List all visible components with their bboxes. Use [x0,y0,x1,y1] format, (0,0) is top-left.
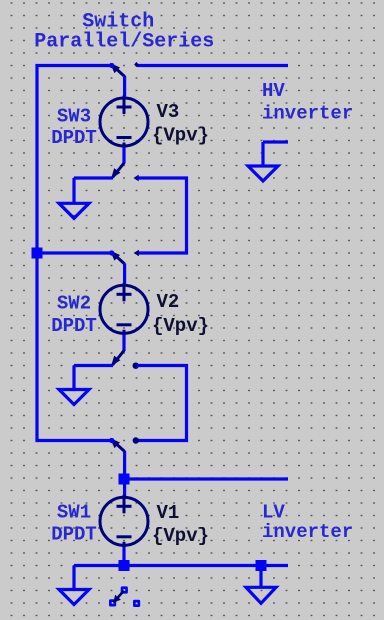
wire: series link V3 negative to SW2 right contact (U branch) [137,178,187,253]
node: junction left rail / SW2 wire [32,248,43,259]
svg-text:DPDT: DPDT [51,524,97,546]
svg-text:DPDT: DPDT [51,127,97,149]
svg-text:SW1: SW1 [57,502,91,524]
svg-text:V1: V1 [157,502,180,524]
wire: bottom ground rail [74,564,288,567]
ground (V2) [59,366,89,405]
label: SW2 DPDT [51,293,97,338]
svg-text:{Vpv}: {Vpv} [152,125,209,147]
label: V2 {Vpv} [152,291,209,337]
label: SW3 DPDT [51,106,97,150]
wire: V2 negative stub [122,335,125,351]
wire: V1 negative stub [122,547,125,566]
wire: LV inverter positive wire [124,477,288,480]
wire: HV inverter ground link [263,140,288,143]
ground (bottom left) [59,566,89,605]
wire: top right wire to HV inverter [137,64,288,67]
wire: SW3 common to V3 positive [123,76,126,97]
switch SW3 pole A (top): diagonal throw [109,62,138,77]
voltage source V1 [100,495,148,548]
wire: SW1 common to V1 positive [123,451,126,496]
label: HV inverter [262,80,353,125]
svg-text:DPDT: DPDT [51,315,97,337]
voltage source V2 [100,283,148,336]
ground (V3) [59,178,89,218]
ground (bottom right, LV inverter) [246,566,276,604]
wire: V3 negative stub [122,148,125,164]
svg-text:inverter: inverter [262,103,353,125]
svg-text:SW3: SW3 [57,106,91,128]
label: SW1 DPDT [51,502,97,546]
svg-text:inverter: inverter [262,521,353,543]
label: title "Switch Parallel/Series" [34,11,214,54]
switch SW2 pole B (bottom): diagonal throw [111,351,139,369]
wire: V3 negative to ground [74,176,113,179]
svg-text:V3: V3 [157,101,180,123]
ground (HV inverter) [248,142,278,181]
node: junction ground rail / right ground [256,560,267,571]
switch SW1 pole A (top): diagonal throw [109,437,139,451]
label: V3 {Vpv} [152,101,209,147]
label: V1 {Vpv} [152,502,209,547]
wire: left rail from SW3 left contact down to SW1 left contact [37,66,112,441]
voltage source V3 [100,96,148,149]
switch SW1 actuator glyph [109,586,140,607]
wire: SW2 top wire from junction [37,251,113,254]
node: junction V1 negative / ground rail [119,560,130,571]
svg-text:SW2: SW2 [57,293,91,315]
svg-text:V2: V2 [157,291,180,313]
wire: series link V2 negative to SW1 right contact (U branch) [137,366,187,441]
svg-text:HV: HV [262,80,285,102]
svg-text:Parallel/Series: Parallel/Series [34,31,214,54]
switch SW3 pole B (bottom): diagonal throw [111,163,139,181]
wire: SW2 common to V2 positive [123,264,126,284]
svg-text:{Vpv}: {Vpv} [152,315,209,337]
label: LV inverter [262,502,353,544]
wire: V2 negative to ground [74,364,113,367]
node: junction SW1 common / LV wire [119,474,130,485]
svg-text:{Vpv}: {Vpv} [152,525,209,547]
switch SW2 pole A (top): diagonal throw [109,250,139,264]
